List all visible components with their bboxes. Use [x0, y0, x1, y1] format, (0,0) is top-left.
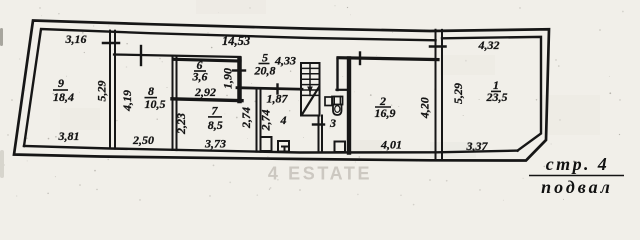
toilet bowl inner	[335, 106, 340, 113]
outer wall boundary	[14, 21, 549, 161]
wc top wall	[337, 89, 349, 91]
wall below stairs line a	[318, 116, 320, 153]
svg-text:1,87: 1,87	[267, 92, 289, 106]
scan smudge left bottom	[0, 150, 4, 178]
room 6 bottom wall	[172, 99, 242, 101]
tick on wall 9|8	[103, 42, 119, 45]
svg-text:3,6: 3,6	[192, 69, 208, 83]
wall 3|2	[347, 59, 351, 153]
staircase arrow head	[307, 87, 313, 94]
room 8 top wall	[114, 55, 240, 58]
paper speckles	[7, 7, 620, 200]
room 6 top wall	[175, 59, 240, 61]
svg-text:2,23: 2,23	[174, 113, 188, 135]
room 5 bottom wall	[237, 88, 302, 90]
tick on room 2 top wall	[359, 53, 361, 65]
scan smudge left top	[0, 28, 3, 46]
svg-text:5,29: 5,29	[95, 81, 109, 102]
svg-text:8,5: 8,5	[208, 118, 223, 132]
shaft wall	[336, 59, 338, 91]
staircase center divider	[309, 63, 311, 95]
toilet bowl	[333, 105, 342, 116]
wall 9|8 line b	[114, 31, 116, 149]
svg-text:4 ESTATE: 4 ESTATE	[268, 164, 372, 184]
svg-text:5,29: 5,29	[451, 83, 465, 104]
svg-text:14,53: 14,53	[222, 34, 250, 48]
toilet cistern	[332, 97, 343, 105]
svg-text:7: 7	[212, 103, 219, 117]
svg-text:2,74: 2,74	[239, 107, 253, 129]
sink tap mark	[281, 147, 288, 151]
svg-text:3: 3	[329, 116, 336, 130]
svg-text:3,16: 3,16	[65, 32, 87, 46]
staircase treads	[301, 68, 320, 95]
svg-text:4: 4	[280, 113, 287, 127]
svg-text:стр. 4: стр. 4	[546, 154, 609, 174]
section wall line b	[441, 30, 443, 160]
tick on wall below stairs	[313, 123, 324, 125]
svg-text:2,74: 2,74	[259, 110, 273, 132]
inner wall boundary	[24, 29, 436, 146]
tick on room 8 top wall	[140, 46, 142, 65]
svg-text:9: 9	[58, 76, 64, 90]
svg-text:20,8: 20,8	[254, 64, 276, 78]
room 2 top wall	[338, 58, 438, 60]
sink box	[278, 141, 289, 152]
wall 8|7 line a	[172, 57, 174, 151]
wall 9|8 line a	[109, 31, 111, 149]
svg-text:4,01: 4,01	[380, 138, 402, 152]
svg-text:10,5: 10,5	[145, 97, 166, 111]
svg-text:23,5: 23,5	[486, 90, 508, 104]
inner wall right section	[442, 37, 541, 151]
toilet cistern line	[333, 97, 335, 105]
staircase outline	[301, 63, 320, 116]
tick on section wall	[430, 45, 446, 48]
svg-text:3,37: 3,37	[466, 139, 489, 153]
shower tray	[335, 142, 346, 153]
inner bottom wall	[24, 146, 518, 153]
svg-text:3,81: 3,81	[58, 129, 80, 143]
section wall line a	[435, 30, 437, 161]
svg-text:4,20: 4,20	[418, 97, 432, 119]
svg-text:3,73: 3,73	[204, 137, 226, 151]
wc sink box	[325, 97, 333, 106]
tick on room 6 right wall	[233, 69, 245, 71]
svg-text:2,92: 2,92	[194, 85, 216, 99]
svg-text:4,19: 4,19	[120, 90, 134, 112]
wall 7|4 line a	[256, 89, 258, 152]
svg-text:16,9: 16,9	[375, 106, 396, 120]
wall below stairs line b	[321, 116, 323, 153]
wall 8|7 line b	[176, 57, 178, 150]
fixture box room 4	[261, 137, 272, 151]
svg-text:подвал: подвал	[541, 177, 613, 197]
staircase diagonal	[302, 87, 319, 115]
svg-text:18,4: 18,4	[53, 90, 74, 104]
svg-text:2,50: 2,50	[132, 133, 154, 147]
title divider line	[529, 175, 624, 177]
scan gray patches	[60, 0, 600, 158]
svg-text:8: 8	[148, 84, 154, 98]
svg-text:4,33: 4,33	[274, 53, 296, 67]
svg-text:4,32: 4,32	[478, 38, 500, 52]
svg-text:5: 5	[262, 50, 268, 64]
svg-text:1,90: 1,90	[221, 68, 235, 89]
wall 7|4 line b	[260, 89, 262, 152]
room 6 right wall	[237, 59, 242, 102]
toilet cistern line b	[339, 97, 341, 105]
tick on room 5 bottom wall	[276, 85, 278, 94]
